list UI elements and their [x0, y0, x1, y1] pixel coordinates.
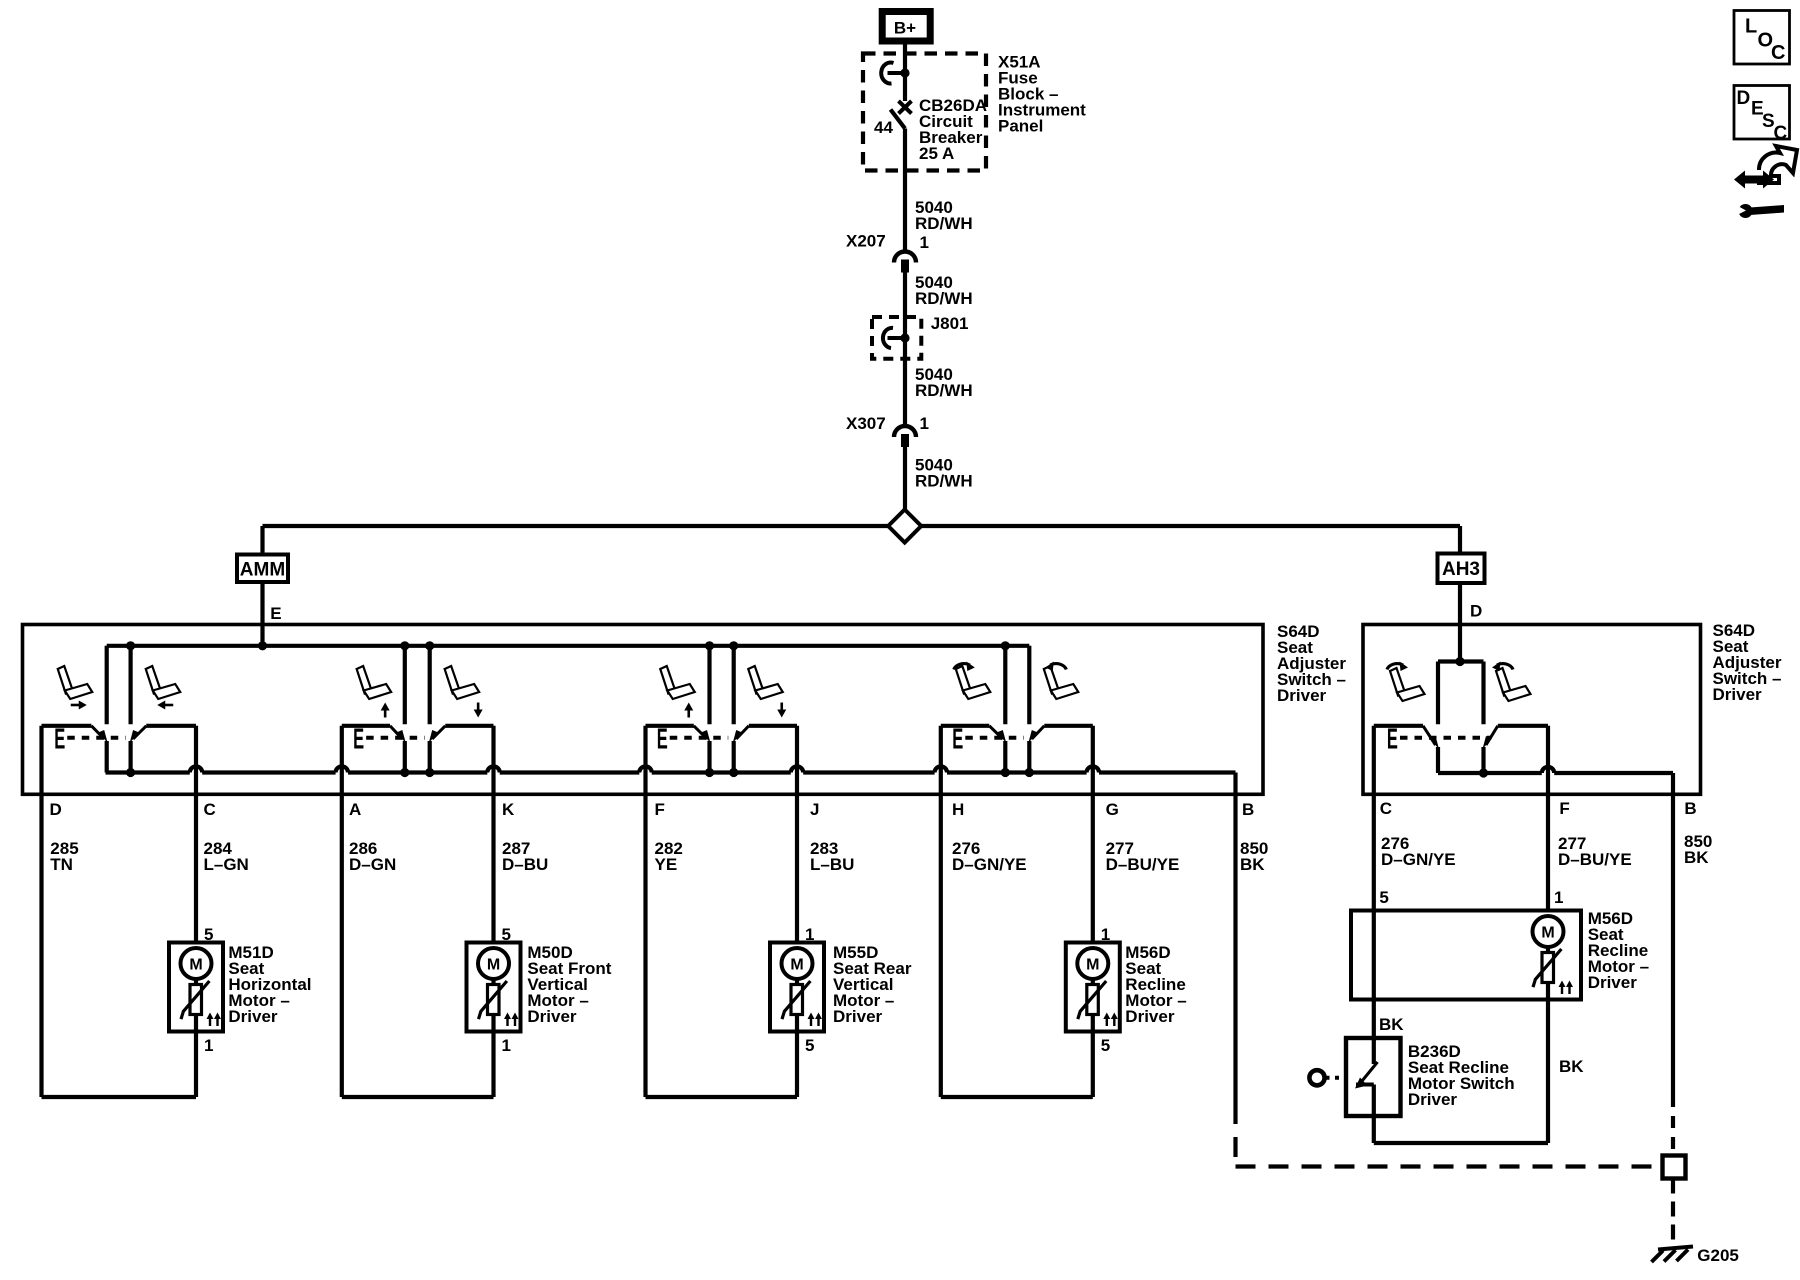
pole left — [1436, 662, 1440, 725]
switch B236D Seat Recline Motor Switch Driver — [1346, 1038, 1401, 1116]
junction D feed to pole — [1455, 657, 1464, 666]
E feed drop right — [129, 646, 133, 725]
recline arrow left — [954, 662, 975, 672]
wire AH3 pin D into switch — [1458, 583, 1462, 662]
svg-text:D–GN/YE: D–GN/YE — [1381, 850, 1456, 869]
blade right — [1486, 726, 1498, 745]
svg-text:M: M — [1541, 925, 1554, 942]
dashed to splice square — [1671, 1095, 1675, 1154]
svg-text:Driver: Driver — [833, 1007, 883, 1026]
switch blade left — [390, 726, 402, 739]
svg-text:J801: J801 — [931, 314, 969, 333]
wire out of B236D — [1372, 1085, 1376, 1117]
B bus inside switch (to pin B) — [106, 770, 190, 774]
seat icon left — [660, 666, 695, 699]
junction blade-left to B bus — [705, 768, 714, 777]
svg-text:C: C — [1774, 123, 1788, 144]
actuator knob (hex) — [1309, 1070, 1324, 1085]
switch blade left — [989, 726, 1003, 739]
right contact block top — [445, 724, 493, 728]
pin B wire right box — [1671, 773, 1675, 794]
svg-text:B: B — [1684, 799, 1696, 818]
wire into B236D — [1372, 1038, 1376, 1064]
E feed drop right — [428, 646, 432, 725]
left contact block top — [646, 724, 694, 728]
svg-text:C: C — [1771, 42, 1785, 64]
splice square — [1663, 1156, 1686, 1179]
svg-text:44: 44 — [874, 118, 893, 137]
svg-text:X207: X207 — [846, 232, 886, 251]
motor box — [467, 943, 521, 1032]
wire B+ to fuse block — [903, 45, 907, 55]
pin wire left through box — [643, 726, 647, 795]
E feed drop left — [1003, 646, 1007, 725]
svg-text:BK: BK — [1240, 855, 1265, 874]
right contact block top — [146, 724, 196, 728]
svg-text:C: C — [1380, 799, 1392, 818]
svg-text:YE: YE — [655, 855, 678, 874]
arrow up — [684, 703, 693, 718]
svg-text:AH3: AH3 — [1442, 559, 1480, 580]
wire 5040 RD/WH J801 to X307 — [903, 338, 907, 426]
junction blade to B bus — [1479, 768, 1488, 777]
switch unit H/G recline — [1001, 641, 1010, 650]
wire BK to B236D — [1372, 1000, 1376, 1042]
svg-text:E: E — [657, 724, 668, 756]
arrow left — [157, 701, 173, 710]
DESC box icon — [1734, 86, 1790, 140]
left block top — [1374, 724, 1423, 728]
svg-text:D–BU/YE: D–BU/YE — [1558, 850, 1632, 869]
splice diamond — [888, 510, 921, 543]
junction blade-right to B bus — [425, 768, 434, 777]
svg-text:D–BU: D–BU — [502, 855, 548, 874]
pin wire right through box — [1091, 726, 1095, 795]
svg-text:B: B — [1242, 800, 1254, 819]
svg-text:5: 5 — [502, 925, 511, 944]
svg-text:BK: BK — [1379, 1015, 1404, 1034]
svg-text:Driver: Driver — [527, 1007, 577, 1026]
svg-text:E: E — [54, 724, 65, 756]
svg-text:5: 5 — [1379, 888, 1388, 907]
wire 850 BK dashed down — [1233, 1104, 1237, 1167]
svg-text:X307: X307 — [846, 414, 886, 433]
connector AH3 — [1438, 554, 1485, 584]
junction blade-left to B bus — [400, 768, 409, 777]
fuse block X51A - Instrument Panel (dashed) — [863, 54, 986, 171]
wrench — [1739, 204, 1753, 218]
wire bus to AH3 — [1458, 526, 1462, 554]
svg-text:Driver: Driver — [1408, 1090, 1458, 1109]
svg-text:1: 1 — [920, 414, 929, 433]
svg-text:E: E — [353, 724, 364, 756]
svg-text:AMM: AMM — [240, 560, 285, 581]
arrow up — [381, 703, 390, 718]
switch blade right — [432, 726, 445, 739]
wire bus to AMM — [260, 526, 264, 555]
svg-text:E: E — [952, 724, 963, 756]
connector X307 pin 1 — [894, 426, 916, 437]
svg-text:B+: B+ — [894, 19, 916, 38]
switch blade right — [1032, 726, 1045, 739]
motor box — [169, 943, 223, 1032]
svg-text:Driver: Driver — [1713, 685, 1763, 704]
seat icon right — [445, 666, 480, 699]
svg-text:1: 1 — [920, 233, 929, 252]
motor symbol M — [478, 948, 509, 979]
svg-text:1: 1 — [805, 925, 814, 944]
wire 850 BK from left box pin B — [1233, 794, 1237, 1104]
svg-text:M: M — [189, 957, 202, 974]
svg-text:1: 1 — [1101, 925, 1110, 944]
wire 5040 RD/WH fuse to X207 — [903, 129, 907, 252]
wire 5040 RD/WH X207 to J801 — [903, 273, 907, 339]
motor return loop wire — [643, 794, 647, 1097]
svg-text:D: D — [50, 800, 62, 819]
breaker blade — [891, 110, 906, 129]
dashed to ground — [1671, 1179, 1675, 1243]
junction blade-right to B bus — [729, 768, 738, 777]
arrow right — [71, 701, 87, 710]
svg-text:TN: TN — [50, 855, 73, 874]
svg-text:D–GN/YE: D–GN/YE — [952, 855, 1027, 874]
svg-text:RD/WH: RD/WH — [915, 381, 973, 400]
seat icon left — [58, 666, 93, 699]
E feed drop right — [732, 646, 736, 725]
wire 850 BK from right box pin B — [1671, 794, 1675, 1095]
switch unit D/C horizontal — [126, 641, 135, 650]
pin wire left through box — [39, 726, 43, 795]
position sensor — [479, 979, 519, 1032]
motor box (wide) — [1351, 911, 1581, 1000]
pin wire right through box — [491, 726, 495, 795]
svg-text:D: D — [1737, 88, 1751, 109]
seat adjuster switch S64D (driver) outline — [23, 625, 1264, 795]
B236D blade — [1362, 1062, 1378, 1081]
svg-text:RD/WH: RD/WH — [915, 214, 973, 233]
wire 850 BK dashed horizontal — [1236, 1164, 1662, 1168]
wire 5040 RD/WH X307 to splice — [903, 447, 907, 510]
E feed drop left — [403, 646, 407, 725]
svg-text:L–GN: L–GN — [204, 855, 249, 874]
wire pin F to motor box — [1546, 794, 1550, 910]
recline arrow left — [1387, 662, 1408, 672]
pin wire right through box — [795, 726, 799, 795]
svg-text:C: C — [204, 800, 216, 819]
position sensor — [782, 979, 822, 1032]
ground G205 — [1658, 1247, 1693, 1250]
pole right — [1481, 662, 1485, 725]
svg-text:5: 5 — [204, 925, 213, 944]
motor symbol M — [1533, 916, 1564, 947]
right block top — [1498, 724, 1548, 728]
svg-text:L: L — [1745, 16, 1757, 38]
arrow down — [474, 703, 483, 718]
bus wire splice to right — [922, 524, 1461, 528]
pin C wire through box — [1372, 726, 1376, 795]
svg-text:BK: BK — [1559, 1057, 1584, 1076]
switch blade left — [694, 726, 707, 739]
svg-text:L–BU: L–BU — [810, 855, 854, 874]
junction blade-left to B bus — [1001, 768, 1010, 777]
svg-text:M: M — [790, 957, 803, 974]
svg-text:G205: G205 — [1697, 1246, 1739, 1265]
position sensor — [181, 979, 221, 1032]
pole top bar — [1438, 659, 1484, 663]
pin wire right through box — [194, 726, 198, 795]
junction blade-right to B bus — [1025, 768, 1034, 777]
svg-text:J: J — [810, 800, 819, 819]
seat icon right — [748, 666, 783, 699]
svg-text:E: E — [270, 604, 281, 623]
wire inside fuse block — [903, 54, 907, 102]
switch blade right — [736, 726, 749, 739]
svg-text:G: G — [1106, 800, 1119, 819]
B bus right box — [1438, 771, 1542, 775]
svg-text:D: D — [1470, 602, 1482, 621]
svg-text:M: M — [487, 957, 500, 974]
motor box — [1066, 943, 1120, 1032]
svg-text:1: 1 — [502, 1036, 511, 1055]
switch blade right — [133, 726, 146, 739]
motor return loop wire — [340, 794, 344, 1097]
motor box — [770, 943, 824, 1032]
wire pin to motor — [795, 794, 799, 942]
svg-text:Panel: Panel — [998, 117, 1043, 136]
arrow down — [777, 703, 786, 718]
LOC box icon — [1734, 11, 1790, 65]
navigation icon: double arrow / jump arrow / wrench — [1734, 171, 1774, 189]
recline arrow right — [1492, 662, 1513, 672]
pin wire left through box — [340, 726, 344, 795]
motor symbol M — [1077, 948, 1108, 979]
junction blade-right to B bus — [126, 768, 135, 777]
svg-text:BK: BK — [1684, 848, 1709, 867]
right contact block top — [749, 724, 797, 728]
wire through motor box — [1372, 911, 1376, 1000]
svg-text:D–GN: D–GN — [349, 855, 396, 874]
motor return loop wire — [939, 794, 943, 1097]
splice J801 (dashed box) — [872, 317, 921, 359]
connector X207 pin 1 — [894, 252, 916, 263]
position sensor — [1533, 947, 1573, 1000]
svg-text:1: 1 — [204, 1036, 213, 1055]
svg-text:A: A — [349, 800, 361, 819]
svg-text:5: 5 — [805, 1036, 814, 1055]
svg-text:E: E — [1387, 724, 1398, 756]
seat icon left — [956, 666, 991, 699]
motor return loop wire — [39, 794, 43, 1097]
wire pin to motor — [491, 794, 495, 942]
svg-text:Driver: Driver — [228, 1007, 278, 1026]
pin wire left through box — [939, 726, 943, 795]
battery terminal B+ — [882, 12, 930, 42]
svg-text:5: 5 — [1101, 1036, 1110, 1055]
seat icon left — [357, 666, 392, 699]
wire pin to motor — [194, 794, 198, 942]
left contact block top — [342, 724, 390, 728]
left contact block top — [42, 724, 92, 728]
switch unit A/K front vertical — [400, 641, 409, 650]
E feed bus inside switch — [107, 644, 1030, 648]
svg-text:H: H — [952, 800, 964, 819]
pin B wire inside box — [1233, 773, 1237, 795]
seat icon right — [1496, 668, 1531, 701]
svg-text:1: 1 — [1554, 888, 1563, 907]
seat icon right — [146, 666, 181, 699]
E feed drop right — [1027, 646, 1031, 725]
connector AMM — [237, 555, 288, 583]
svg-text:F: F — [655, 800, 665, 819]
switch blade left — [91, 726, 104, 739]
svg-text:Driver: Driver — [1588, 973, 1638, 992]
svg-text:RD/WH: RD/WH — [915, 289, 973, 308]
recline motor loop wire — [1372, 1116, 1376, 1143]
E feed drop left — [105, 646, 109, 725]
switch unit F/J rear vertical — [705, 641, 714, 650]
svg-text:25 A: 25 A — [919, 144, 954, 163]
recline arrow right — [1045, 662, 1066, 672]
bus wire left to splice — [263, 524, 889, 528]
junction E feed — [258, 641, 267, 650]
svg-text:RD/WH: RD/WH — [915, 472, 973, 491]
svg-text:K: K — [502, 800, 515, 819]
blade left — [1423, 726, 1436, 745]
svg-text:M: M — [1086, 957, 1099, 974]
seat icon right — [1044, 666, 1079, 699]
E feed drop left — [707, 646, 711, 725]
seat icon left — [1390, 668, 1425, 701]
svg-text:Driver: Driver — [1125, 1007, 1175, 1026]
position sensor — [1078, 979, 1118, 1032]
wire pin to motor — [1091, 794, 1095, 942]
wire AMM pin E into switch — [260, 582, 264, 646]
svg-text:Driver: Driver — [1277, 686, 1327, 705]
motor symbol M — [181, 948, 212, 979]
right contact block top — [1044, 724, 1093, 728]
svg-text:F: F — [1559, 799, 1569, 818]
seat adjuster switch S64D (driver) recline section outline — [1363, 625, 1701, 795]
pin F wire through box — [1546, 726, 1550, 795]
svg-text:D–BU/YE: D–BU/YE — [1106, 855, 1180, 874]
left contact block top — [941, 724, 990, 728]
wire pin C to motor box — [1372, 794, 1376, 910]
motor symbol M — [782, 948, 813, 979]
